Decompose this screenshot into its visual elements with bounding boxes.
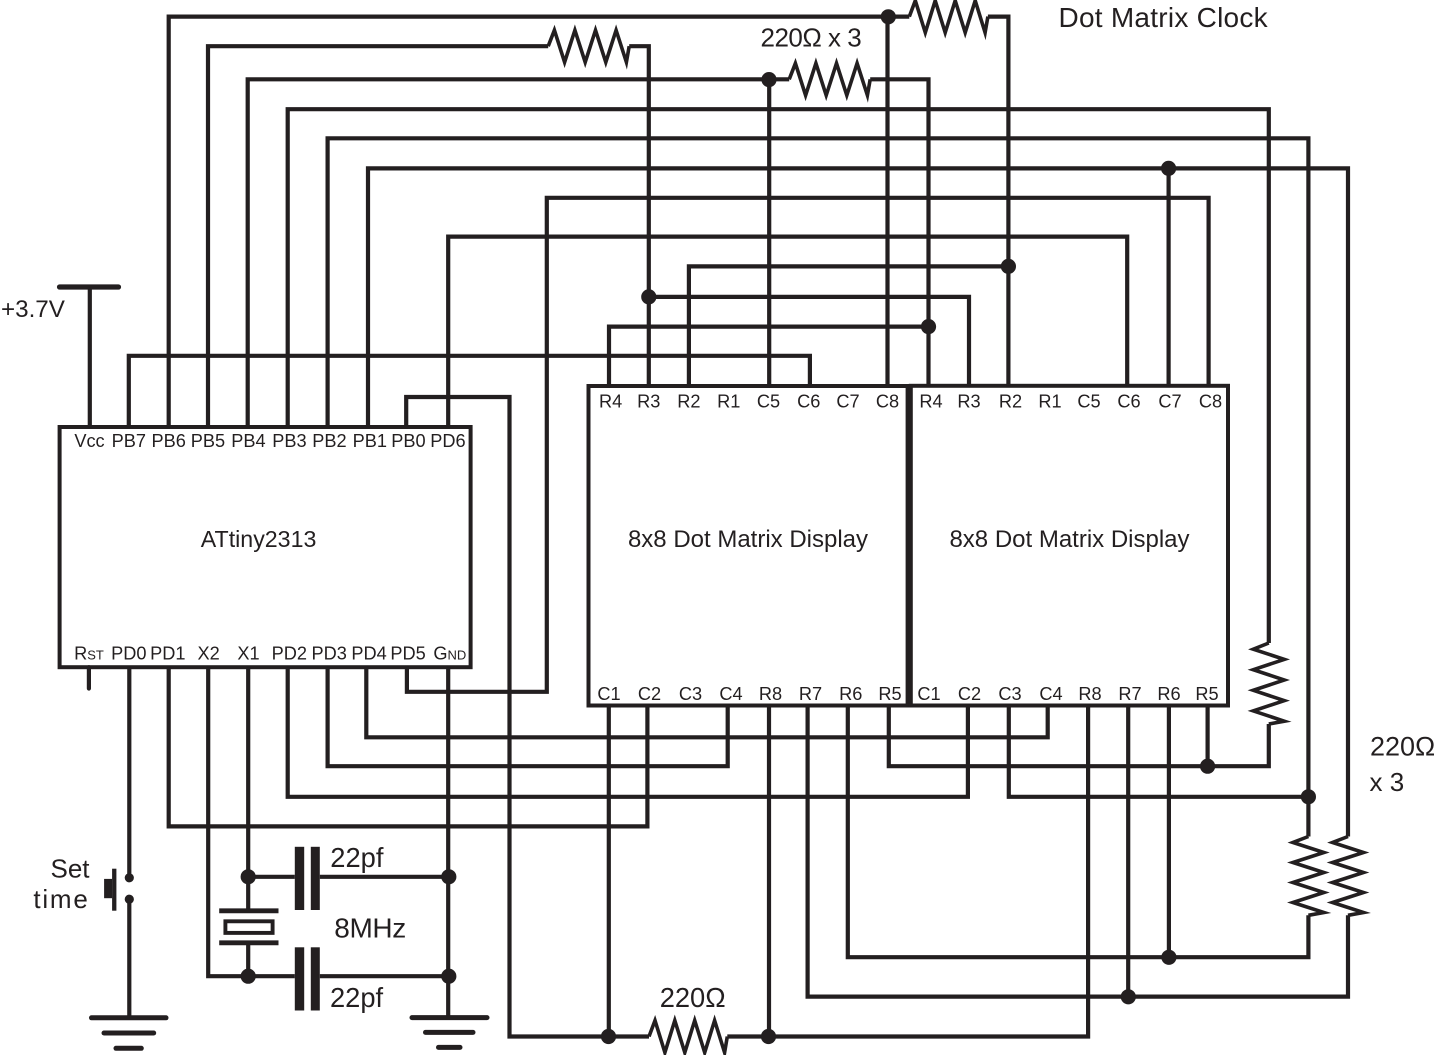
svg-text:R7: R7 [799,684,822,704]
svg-text:x 3: x 3 [1370,767,1405,797]
svg-text:PD2: PD2 [272,644,307,664]
svg-text:C4: C4 [719,684,742,704]
svg-text:PB5: PB5 [191,431,225,451]
svg-text:PB0: PB0 [391,431,425,451]
svg-text:C6: C6 [1117,392,1140,412]
svg-text:22pf: 22pf [330,842,384,873]
svg-text:Set: Set [50,854,90,884]
svg-text:R2: R2 [999,392,1022,412]
svg-text:R7: R7 [1118,684,1141,704]
svg-text:time: time [33,884,89,914]
svg-text:ATtiny2313: ATtiny2313 [201,526,317,552]
svg-text:C8: C8 [876,392,899,412]
svg-text:C1: C1 [917,684,940,704]
svg-text:C8: C8 [1199,392,1222,412]
svg-text:PB6: PB6 [152,431,186,451]
svg-text:C7: C7 [1158,392,1181,412]
svg-text:PB1: PB1 [353,431,387,451]
svg-text:PB4: PB4 [231,431,265,451]
svg-text:R3: R3 [957,392,980,412]
svg-text:R4: R4 [599,392,622,412]
svg-text:Dot Matrix Clock: Dot Matrix Clock [1059,2,1269,33]
svg-text:C5: C5 [1077,392,1100,412]
svg-text:PD4: PD4 [351,644,386,664]
svg-text:PD6: PD6 [430,431,465,451]
svg-text:PD1: PD1 [150,644,185,664]
svg-text:R4: R4 [919,392,942,412]
svg-text:8MHz: 8MHz [334,913,406,944]
svg-text:R6: R6 [839,684,862,704]
svg-text:R5: R5 [1195,684,1218,704]
svg-text:C3: C3 [679,684,702,704]
svg-text:R1: R1 [717,392,740,412]
svg-text:Vcc: Vcc [74,431,104,451]
svg-text:C4: C4 [1039,684,1062,704]
svg-text:22pf: 22pf [330,982,384,1013]
svg-text:R2: R2 [677,392,700,412]
svg-text:R1: R1 [1038,392,1061,412]
svg-text:R8: R8 [759,684,782,704]
svg-text:X1: X1 [237,644,259,664]
svg-text:C5: C5 [757,392,780,412]
svg-text:R8: R8 [1078,684,1101,704]
svg-text:220Ω: 220Ω [1370,732,1434,762]
svg-text:PD5: PD5 [390,644,425,664]
svg-text:220Ω: 220Ω [660,982,726,1013]
svg-text:+3.7V: +3.7V [1,296,66,323]
svg-text:PB2: PB2 [312,431,346,451]
svg-text:C2: C2 [958,684,981,704]
svg-text:8x8 Dot Matrix Display: 8x8 Dot Matrix Display [949,526,1189,553]
svg-text:C3: C3 [998,684,1021,704]
svg-text:PB3: PB3 [272,431,306,451]
svg-text:C2: C2 [638,684,661,704]
svg-text:220Ω x 3: 220Ω x 3 [761,23,862,53]
svg-text:C7: C7 [836,392,859,412]
svg-text:PB7: PB7 [112,431,146,451]
svg-text:PD0: PD0 [111,644,146,664]
svg-text:C6: C6 [797,392,820,412]
svg-text:R5: R5 [878,684,901,704]
svg-text:X2: X2 [197,644,219,664]
svg-text:C1: C1 [597,684,620,704]
svg-text:R3: R3 [637,392,660,412]
svg-text:PD3: PD3 [312,644,347,664]
svg-text:8x8 Dot Matrix Display: 8x8 Dot Matrix Display [628,526,868,553]
svg-text:R6: R6 [1157,684,1180,704]
